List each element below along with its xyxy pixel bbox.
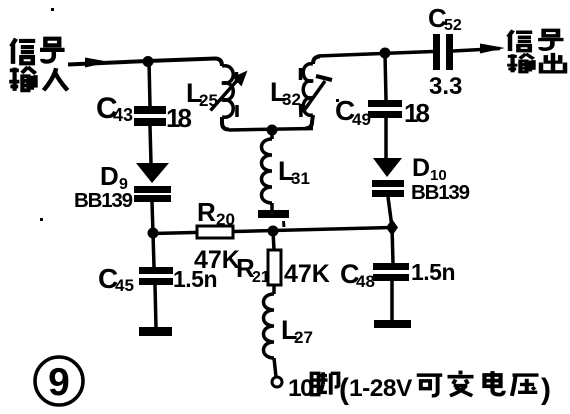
svg-text:52: 52 [444,17,462,34]
inductor L32 (variable) [301,57,333,129]
node: input/C43/L25 junction [143,56,154,67]
ground (left) [139,327,172,336]
terminal: pin 10 [272,377,282,387]
resistor R21 [268,231,281,294]
tick below L31 bar [282,221,286,227]
label D9 [100,161,128,193]
node: R21 tap junction [268,226,279,237]
svg-text:): ) [541,373,551,406]
wire: D10 to C48 node [388,197,392,227]
inductor L25 (variable) [211,59,248,130]
label C49 [335,95,371,129]
svg-text:D: D [100,161,119,191]
capacitor C48 [373,263,409,281]
wire: C43 top lead [149,61,150,106]
wire: input lead with arrow [68,58,148,68]
svg-text:D: D [412,154,430,182]
svg-text:43: 43 [113,105,133,125]
capacitor C52 (series) [433,34,453,70]
svg-text:25: 25 [199,91,218,110]
svg-text:32: 32 [282,90,301,109]
label C52 [428,3,462,34]
label R20 [197,197,235,229]
wire: L27 to terminal [274,358,276,377]
svg-text:49: 49 [352,110,371,129]
label L32 [270,77,301,109]
label R21 [236,253,270,286]
label L25 [186,78,218,110]
varactor diode D10 [372,158,404,197]
label C45 [98,263,134,295]
svg-text:10: 10 [288,375,313,402]
node: D9/R20/C45 junction [148,228,159,239]
label C48 [340,259,375,291]
wire: top-left rail to L25 [148,59,215,62]
label C43 [96,92,133,125]
label 信号 (output, line 1) [508,30,563,51]
capacitor C45 [139,267,173,285]
svg-text:1.5n: 1.5n [411,259,455,285]
label 输出 (output, line 2) [507,53,565,72]
svg-text:BB139: BB139 [411,181,470,204]
svg-text:27: 27 [294,328,313,347]
svg-text:47K: 47K [284,260,330,288]
svg-text:(: ( [339,373,349,406]
wire: middle rail [153,228,392,234]
wire: C45 to ground [155,285,156,328]
wire: bottom mid rail [229,129,313,131]
node: D10/R20/C48 junction [386,219,398,236]
svg-text:3.3: 3.3 [429,73,462,100]
svg-text:45: 45 [115,276,134,295]
label 输入 (input, line 2) [9,67,67,91]
label L31 [278,156,310,188]
node: L32/C49/C52 junction [380,48,391,59]
svg-text:1-28V: 1-28V [349,375,413,402]
svg-text:31: 31 [291,169,310,188]
node: L25/L32/L31 junction [267,125,278,136]
wire: C48 to ground [390,281,394,321]
capacitor C49 [368,100,402,118]
label D10 [412,154,447,184]
svg-text:21: 21 [252,269,270,286]
wire: D9 to middle node [152,202,153,233]
wire: C43 to D9 [150,126,151,163]
svg-text:48: 48 [356,272,375,291]
svg-text:18: 18 [404,98,429,128]
capacitor C43 [134,106,166,126]
figure number 9 (circled) [35,357,83,405]
inductor L27 [264,294,275,358]
svg-text:9: 9 [48,361,70,404]
inductor L31 [262,130,273,210]
wire: C49 top lead [385,53,386,100]
label 信号 (input, line 1) [11,39,64,64]
svg-text:R: R [197,197,216,227]
wire: top-right rail [318,52,433,57]
termination bar (L31) [258,210,289,218]
svg-text:47K: 47K [194,246,240,274]
wire: node to C45 [153,233,154,267]
label L27 [281,315,313,347]
resistor R20 [197,226,233,238]
node: C48 drop [392,227,393,263]
wire: output lead with arrow [453,44,505,54]
ground (right) [374,320,411,328]
svg-text:20: 20 [216,210,235,229]
varactor diode D9 [134,163,171,202]
svg-text:BB139: BB139 [74,189,133,212]
wire: C49 to D10 [384,118,388,158]
label 10脚(1-28V可变电压) [288,371,551,406]
